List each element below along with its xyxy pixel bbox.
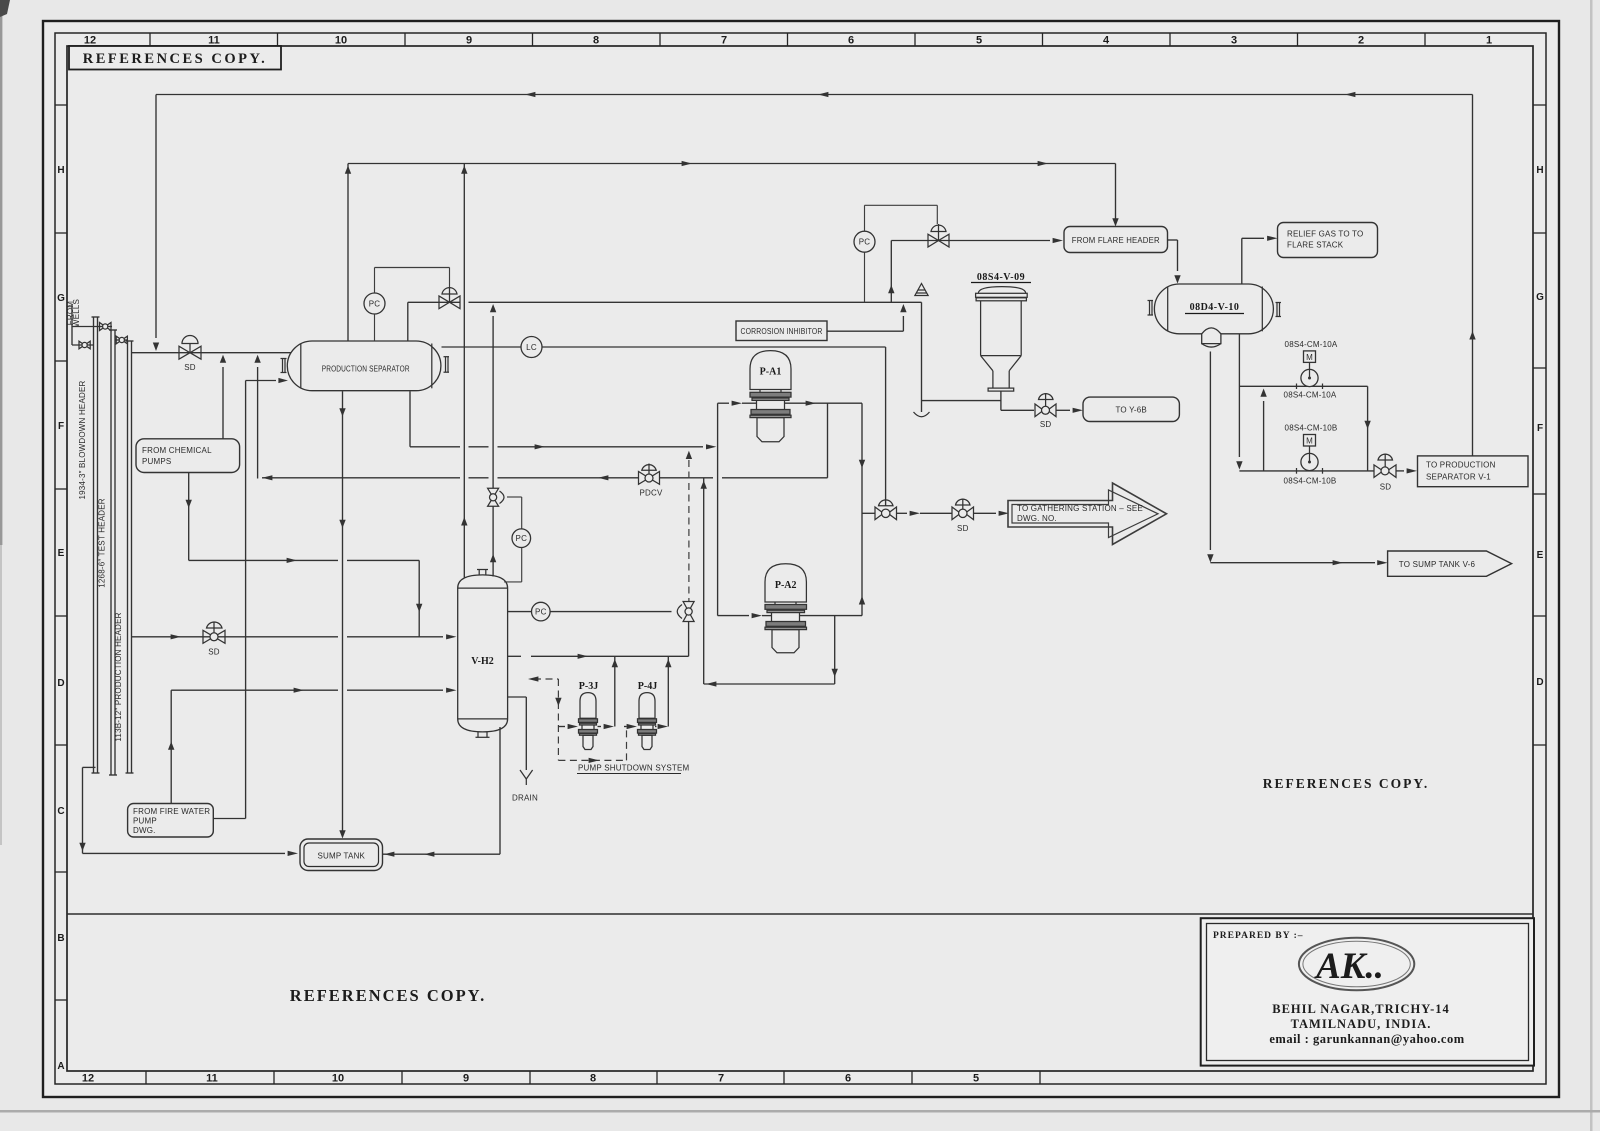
separator feed pipe y=352.7 [132, 352, 296, 354]
grid numbers bottom [82, 1073, 979, 1085]
wire PDCV return riser [257, 367, 259, 479]
CM loop upper wire y=386.3 [1239, 385, 1367, 387]
corrosion inhibitor injection wire [827, 330, 903, 332]
long utility riser x=245.6 [245, 381, 247, 819]
PC signal wires over to valve actuator [864, 205, 866, 231]
PC lower tap wire to gas pipe [864, 252, 866, 302]
svg-text:08S4-CM-10B: 08S4-CM-10B [1285, 424, 1338, 433]
svg-text:PUMP SHUTDOWN SYSTEM: PUMP SHUTDOWN SYSTEM [578, 764, 690, 773]
drop into from-flare-header box [1115, 164, 1117, 225]
svg-text:7: 7 [721, 35, 727, 47]
svg-text:SD: SD [957, 524, 969, 533]
P-A1 discharge wire [785, 402, 863, 404]
flow arrow right [1038, 161, 1048, 166]
vessel V-H2 [458, 575, 508, 732]
svg-text:9: 9 [463, 1073, 469, 1085]
P-3J suction wire [558, 726, 565, 728]
pump P-A2 [765, 564, 807, 653]
LC wire down to level control valve [885, 347, 887, 506]
svg-text:D: D [1536, 677, 1543, 688]
discharge header x=862 [861, 403, 863, 615]
svg-text:11: 11 [208, 35, 220, 47]
grid band dividers right [1533, 105, 1546, 745]
chemical injection wire to V-H2 feed [188, 473, 190, 561]
svg-text:PREPARED BY :–: PREPARED BY :– [1213, 931, 1304, 941]
V-H2 feed pipe y=636.8 [132, 636, 339, 638]
instrument PC (flare line) [854, 231, 875, 252]
pump shutdown dashed suction loop [534, 678, 558, 680]
crossover valve test-production [116, 339, 128, 341]
references copy stamp box top-left [69, 46, 281, 70]
fire water pump box [128, 804, 214, 838]
blowdown header elbow to sump [83, 766, 96, 768]
flow arrow left on top pipe [818, 92, 828, 97]
svg-text:REFERENCES COPY.: REFERENCES COPY. [290, 986, 486, 1005]
V-H2 bottom outlet to sump [499, 727, 501, 854]
svg-text:D: D [57, 678, 64, 689]
P-A2 suction wire [718, 615, 749, 617]
svg-text:SD: SD [1040, 420, 1052, 429]
drain open symbol [520, 770, 533, 785]
svg-text:SD: SD [208, 648, 220, 657]
AK logo ellipse [1299, 938, 1414, 991]
CM loop lower wire y=470.9 [1239, 470, 1374, 472]
svg-text:6: 6 [845, 1073, 851, 1085]
svg-text:E: E [1537, 550, 1544, 561]
V-H2 bottom nozzle [476, 732, 490, 738]
grid band dividers top [150, 33, 1425, 46]
V-H2 gas riser x=464.3 to flare collector [463, 164, 465, 578]
svg-text:AK..: AK.. [1314, 946, 1384, 987]
PDCV signal dashed wire [688, 460, 690, 602]
tee from vent drain to filter drain y=400.6 [922, 400, 1001, 402]
svg-text:6: 6 [848, 35, 854, 47]
level line from separator to LC [442, 346, 886, 348]
separator inlet nozzle wire y=380.5 [246, 380, 276, 382]
wire into TO Y-6B [1056, 409, 1070, 411]
svg-text:P-A1: P-A1 [760, 367, 782, 378]
drum left nozzle [1148, 301, 1154, 316]
svg-text:2: 2 [1358, 35, 1364, 47]
svg-text:PC: PC [369, 300, 381, 309]
svg-text:08D4-V-10: 08D4-V-10 [1190, 302, 1240, 313]
PCV valve (vertical with cup) [677, 602, 694, 622]
pump P-3J [579, 693, 598, 750]
svg-text:F: F [58, 421, 64, 432]
chemical pumps box [136, 439, 240, 473]
svg-text:RELIEF GAS TO TO: RELIEF GAS TO TO [1287, 230, 1363, 239]
title block outer [1201, 918, 1534, 1065]
to production separator V-1 box [1418, 456, 1529, 487]
svg-text:E: E [58, 548, 65, 559]
svg-text:G: G [57, 293, 65, 304]
pump P-4J discharge riser [667, 656, 669, 726]
svg-text:PDCV: PDCV [639, 489, 662, 498]
wire chemical pumps riser [222, 367, 224, 439]
svg-text:8: 8 [590, 1073, 596, 1085]
drain SD valve [1035, 393, 1056, 417]
filter drain wire [1000, 391, 1002, 410]
drum boot [1202, 328, 1221, 344]
svg-text:DRAIN: DRAIN [512, 794, 538, 803]
separator right nozzle [444, 357, 450, 373]
CM loop right dropper [1367, 386, 1369, 471]
svg-text:F: F [1537, 423, 1543, 434]
top recycle pipe y=94.5 [156, 94, 1473, 96]
svg-text:11: 11 [206, 1073, 218, 1085]
wire discharge header to LCV [862, 512, 875, 514]
svg-text:G: G [1536, 292, 1544, 303]
scan artifact left edge [0, 0, 2, 545]
svg-text:4: 4 [1103, 35, 1110, 47]
svg-text:V-H2: V-H2 [471, 656, 494, 667]
V-H2 pressure signal loop [507, 496, 522, 498]
svg-text:M: M [1306, 436, 1313, 445]
flare collector pipe y=163.5 [348, 163, 1116, 165]
shutdown valve on flare line [928, 224, 949, 247]
instrument PC (separator pressure) [364, 293, 385, 314]
from wells feed wire [71, 305, 73, 345]
relief gas box [1278, 223, 1378, 258]
svg-text:TO PRODUCTION: TO PRODUCTION [1426, 461, 1496, 470]
scan artifact bottom shadow [0, 1110, 1600, 1113]
svg-text:PC: PC [859, 238, 871, 247]
compressor 08S4-CM-10B circle [1309, 446, 1311, 453]
flow arrow left on top pipe [525, 92, 535, 97]
V-H2 top manway nozzle [477, 570, 488, 576]
drum 08D4-V-10 [1154, 284, 1273, 334]
svg-text:P-A2: P-A2 [775, 580, 797, 591]
PDCV return pipe y=477.8 [262, 477, 460, 479]
scan artifact top-left corner smudge [0, 0, 10, 17]
fire water box wire to utility riser [213, 818, 245, 820]
svg-text:SEPARATOR V-1: SEPARATOR V-1 [1426, 473, 1491, 482]
svg-text:5: 5 [973, 1073, 979, 1085]
svg-text:BEHIL NAGAR,TRICHY-14: BEHIL NAGAR,TRICHY-14 [1272, 1002, 1450, 1016]
svg-text:SD: SD [1380, 483, 1392, 492]
control valve on gas line [439, 287, 460, 309]
svg-text:SD: SD [184, 363, 196, 372]
svg-text:9: 9 [466, 35, 472, 47]
fire water wire y=690.2 into V-H2 [171, 689, 338, 691]
P-4J discharge arrow [655, 726, 657, 728]
svg-text:3: 3 [1231, 35, 1237, 47]
flow arrow left on top pipe [1345, 92, 1355, 97]
svg-text:PRODUCTION SEPARATOR: PRODUCTION SEPARATOR [322, 365, 410, 374]
V-H2 drain stub [508, 696, 527, 698]
svg-text:1: 1 [1486, 35, 1492, 47]
elbow down to separator top [407, 302, 409, 341]
svg-text:PUMP: PUMP [133, 817, 157, 826]
wire into TO PRODUCTION SEPARATOR V-1 [1396, 470, 1404, 472]
title block inner [1207, 924, 1529, 1061]
P-A2 discharge wire [800, 615, 863, 617]
svg-text:1934-3″ BLOWDOWN HEADER: 1934-3″ BLOWDOWN HEADER [78, 380, 87, 499]
P-A1 suction wire [718, 402, 729, 404]
vent drain drop wire x=921.5 [921, 302, 923, 412]
svg-text:PUMPS: PUMPS [142, 457, 171, 466]
svg-text:7: 7 [718, 1073, 724, 1085]
svg-text:PC: PC [516, 534, 528, 543]
svg-text:12: 12 [84, 35, 96, 47]
separator left nozzle [281, 359, 287, 373]
drum boot drop wire to sump tank V-6 [1209, 352, 1211, 551]
svg-text:5: 5 [976, 35, 982, 47]
SD valve on gathering line [952, 499, 974, 520]
from flare header box [1064, 227, 1168, 253]
svg-text:08S4-CM-10B: 08S4-CM-10B [1284, 477, 1337, 486]
separator water outlet wire down to sump [342, 391, 344, 836]
relief riser from drum top [1241, 238, 1243, 283]
PCV drop wire into discharge manifold [688, 622, 690, 657]
flare valve pipe y=240.5 [891, 240, 1050, 242]
svg-text:12: 12 [82, 1073, 94, 1085]
svg-text:TO GATHERING STATION – SEE: TO GATHERING STATION – SEE [1017, 504, 1143, 513]
motor M box A [1304, 351, 1316, 363]
svg-text:H: H [57, 165, 64, 176]
instrument PC (V-H2 to PCV) [532, 602, 551, 621]
instrument LC [521, 337, 542, 358]
svg-text:10: 10 [335, 35, 347, 47]
svg-text:CORROSION INHIBITOR: CORROSION INHIBITOR [741, 327, 823, 336]
PDCV recycle branch from P-A1 discharge [827, 403, 829, 478]
to gathering station block arrow [1008, 483, 1167, 545]
riser from gas pipe to flare valve line x=891.3 [890, 241, 892, 303]
motor M box B [1304, 435, 1316, 447]
svg-text:B: B [57, 933, 64, 944]
svg-text:P-3J: P-3J [579, 681, 598, 692]
separator oil outlet wire to pump suction manifold [409, 391, 411, 447]
svg-text:FROM FIRE WATER: FROM FIRE WATER [133, 807, 210, 816]
separator gas riser x=348 [347, 164, 349, 342]
pump suction manifold x=717.6 [717, 403, 719, 615]
svg-text:TO SUMP TANK V-6: TO SUMP TANK V-6 [1399, 560, 1476, 569]
P-3J discharge arrow [598, 726, 602, 728]
svg-text:10: 10 [332, 1073, 344, 1085]
sump tank [300, 839, 383, 871]
compressor 08S4-CM-10A circle [1309, 362, 1311, 369]
svg-text:email : garunkannan@yahoo.com: email : garunkannan@yahoo.com [1269, 1032, 1464, 1046]
V-H2 relief riser x=493.1 tee into gas pipe [492, 316, 494, 489]
V-H2 gas PC right side [508, 611, 532, 613]
recycle loop from P-A2 discharge [834, 616, 836, 684]
drum bottom drain wire to CM loop [1238, 334, 1240, 457]
svg-text:TO Y-6B: TO Y-6B [1115, 406, 1147, 415]
pump P-4J [638, 693, 657, 750]
svg-text:FROM FLARE HEADER: FROM FLARE HEADER [1072, 236, 1160, 245]
grid numbers top [84, 35, 1492, 47]
svg-text:113B-12″ PRODUCTION HEADER: 113B-12″ PRODUCTION HEADER [114, 612, 123, 741]
svg-text:SUMP TANK: SUMP TANK [318, 852, 366, 861]
wire into gathering block arrow [974, 512, 997, 514]
vent flame arrestor at end of gas pipe [915, 284, 928, 296]
PC lower tap wire to vessel [374, 314, 376, 341]
svg-text:REFERENCES COPY.: REFERENCES COPY. [83, 51, 268, 67]
svg-text:08S4-CM-10A: 08S4-CM-10A [1285, 340, 1338, 349]
wire flare box to 08D4-V-10 [1168, 239, 1178, 241]
separator gas control pipe y=302.3 [408, 301, 460, 303]
valve SD on V-H2 feed [203, 622, 225, 644]
valve on wells line to blowdown header [79, 341, 90, 349]
svg-text:DWG.: DWG. [133, 826, 156, 835]
pump P-3J discharge riser [614, 656, 616, 726]
svg-text:FROM CHEMICAL: FROM CHEMICAL [142, 446, 212, 455]
svg-text:REFERENCES COPY.: REFERENCES COPY. [1263, 776, 1430, 791]
bottom margin strip separator line [67, 913, 1533, 915]
svg-text:DWG. NO.: DWG. NO. [1017, 514, 1057, 523]
to Y-6B box [1083, 397, 1179, 421]
open drain funnel [914, 412, 930, 417]
svg-text:A: A [57, 1061, 64, 1072]
svg-text:LC: LC [526, 343, 537, 352]
production separator vessel [287, 341, 441, 391]
crossover valve to test header [100, 323, 112, 331]
flow arrow right [682, 161, 692, 166]
test header pipe (1268-6") [109, 330, 117, 775]
wire from top recycle pipe down into feed line [155, 95, 157, 339]
V-H2 oil outlet manifold [508, 655, 521, 657]
grid letters right [1536, 165, 1544, 688]
scan artifact right edge shadow [1590, 0, 1593, 1131]
svg-text:8: 8 [593, 35, 599, 47]
svg-text:FLARE STACK: FLARE STACK [1287, 241, 1344, 250]
grid band dividers bottom [146, 1071, 1040, 1084]
level control valve LCV [875, 500, 897, 520]
filter vessel 08S4-V-09 [976, 287, 1028, 392]
svg-text:08S4-CM-10A: 08S4-CM-10A [1284, 391, 1337, 400]
SD valve before V-1 box [1374, 454, 1396, 478]
svg-text:H: H [1536, 165, 1543, 176]
PC signal wires to control valve [374, 268, 376, 294]
svg-text:M: M [1306, 353, 1313, 362]
fire water riser to V-H2 [170, 690, 172, 803]
valve SD on feed line [179, 336, 201, 360]
corrosion inhibitor box [736, 321, 827, 341]
blowdown header pipe (1934-3") [92, 317, 100, 773]
grid letters left [57, 165, 65, 1072]
instrument PC (V-H2 top) [512, 529, 531, 548]
V-H2 relief valve riser [492, 506, 494, 576]
CM loop left riser [1263, 401, 1265, 471]
svg-text:C: C [57, 806, 64, 817]
svg-text:TAMILNADU, INDIA.: TAMILNADU, INDIA. [1291, 1017, 1432, 1031]
svg-text:PC: PC [535, 607, 547, 616]
P-4J suction wire [624, 726, 627, 728]
pump P-A1 [750, 351, 791, 442]
drum right nozzle [1276, 303, 1282, 317]
svg-text:WELLS: WELLS [72, 299, 81, 327]
svg-text:08S4-V-09: 08S4-V-09 [977, 272, 1025, 283]
svg-text:P-4J: P-4J [638, 681, 657, 692]
right riser to production separator V-1 box [1472, 95, 1474, 456]
production header pipe (113B-12") [126, 341, 134, 773]
grid band dividers left [55, 105, 67, 1000]
to sump tank V-6 pointed box [1388, 551, 1512, 576]
V-H2 relief valve (vertical) [488, 488, 504, 506]
svg-text:1268-6″ TEST HEADER: 1268-6″ TEST HEADER [98, 498, 107, 588]
valve PDCV [639, 464, 660, 485]
wire LCV to SD valve [897, 512, 908, 514]
